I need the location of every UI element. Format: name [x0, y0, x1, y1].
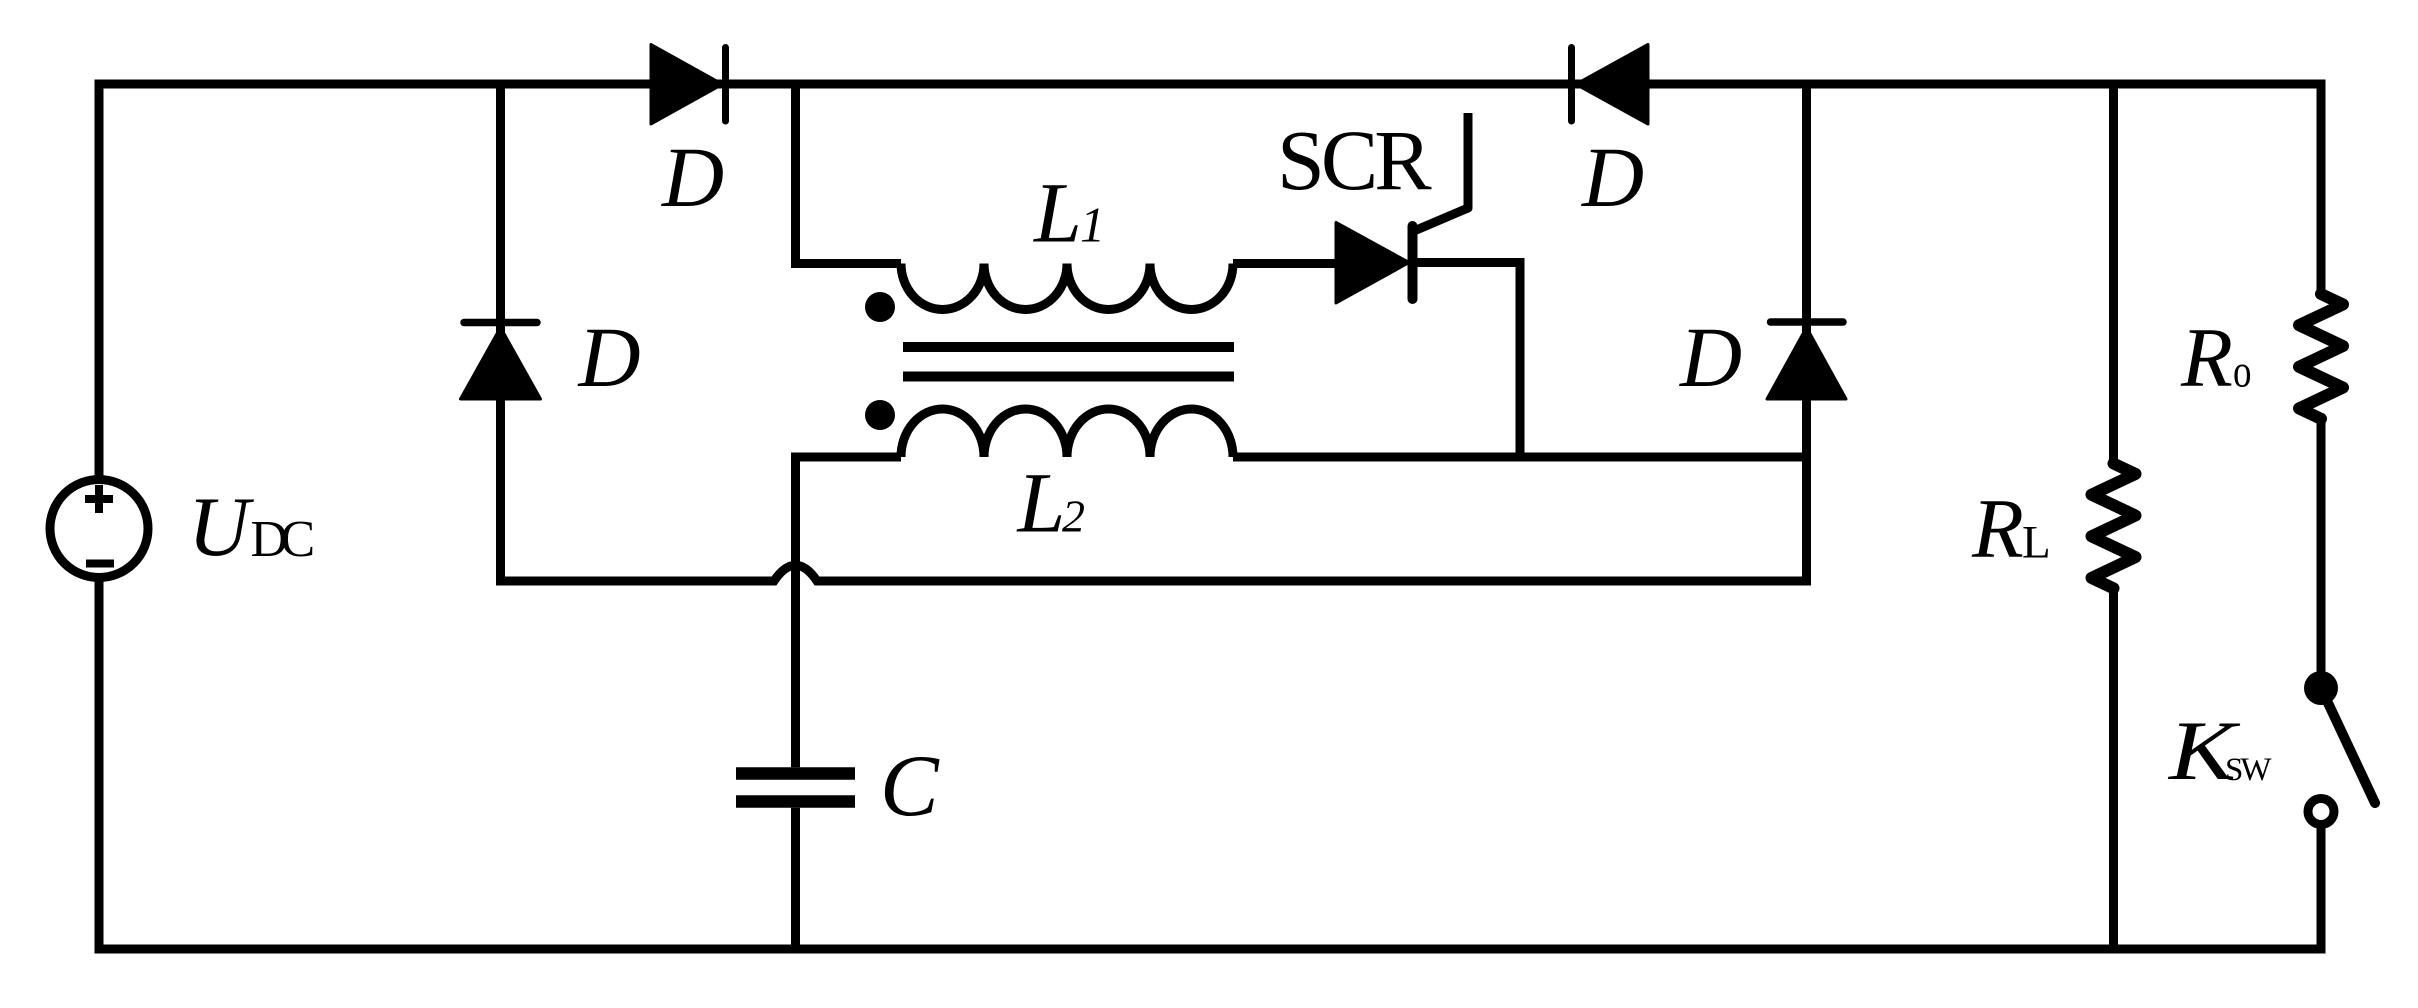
- wire: top rail: [95, 80, 2326, 89]
- svg-text:D: D: [661, 129, 724, 225]
- wire: lower link with hop over capacitor riser: [496, 565, 1811, 581]
- diode D (top-left) bar: [722, 48, 729, 122]
- svg-text:R: R: [2180, 311, 2233, 405]
- thyristor SCR gate: [1414, 113, 1468, 231]
- wire: L1 riser from top rail: [796, 84, 902, 264]
- switch Ksw pivot dot: [2304, 671, 2338, 705]
- switch Ksw open terminal: [2308, 799, 2334, 825]
- inductor L2: [901, 409, 1233, 457]
- svg-text:U: U: [188, 480, 254, 574]
- capacitor C plates: [736, 774, 855, 802]
- wire: SCR cathode to L2 output: [1412, 263, 1520, 462]
- label UDC: [188, 480, 313, 574]
- switch Ksw blade: [2321, 688, 2375, 803]
- svg-text:DC: DC: [251, 511, 313, 568]
- resistor Ro: [2299, 294, 2343, 419]
- wire: capacitor riser upper: [791, 453, 800, 768]
- wire: RL branch upper: [2109, 84, 2118, 464]
- diode D (left) bar: [464, 319, 537, 327]
- wire: switch to bottom rail: [2317, 826, 2326, 954]
- diode D (left) triangle: [461, 328, 541, 400]
- thyristor SCR bar: [1408, 226, 1418, 299]
- wire: L1 to SCR anode: [1233, 259, 1340, 268]
- wire: RL branch lower: [2109, 588, 2118, 953]
- label L1: [1032, 165, 1105, 261]
- wire: L2 left lead: [796, 453, 902, 462]
- svg-text:L: L: [1016, 455, 1066, 551]
- diode D (right) triangle: [1767, 328, 1846, 400]
- svg-text:L: L: [1032, 165, 1082, 261]
- resistor RL: [2092, 464, 2136, 589]
- thyristor SCR triangle: [1336, 223, 1409, 304]
- wire: capacitor riser lower: [791, 808, 800, 954]
- svg-text:L: L: [2022, 517, 2051, 569]
- inductor L1: [901, 264, 1233, 310]
- wire: Ro branch upper: [2317, 84, 2326, 294]
- wire: left diode branch: [496, 84, 505, 581]
- svg-text:D: D: [1581, 129, 1644, 225]
- dc source minus: [86, 560, 114, 568]
- dc source plus: [85, 485, 113, 513]
- label Ksw: [2167, 704, 2273, 798]
- svg-text:D: D: [1679, 309, 1742, 405]
- wire: left source riser (top): [95, 84, 104, 480]
- diode D (top-right) triangle: [1576, 45, 1648, 125]
- transformer core: [903, 347, 1234, 377]
- svg-text:o: o: [2233, 346, 2252, 398]
- wire: bottom rail: [95, 945, 2326, 954]
- svg-text:R: R: [1971, 482, 2024, 576]
- svg-text:1: 1: [1080, 197, 1105, 253]
- label L2: [1016, 455, 1086, 551]
- polarity dot L2: [865, 400, 895, 430]
- label Ro: [2180, 311, 2252, 405]
- svg-text:C: C: [880, 738, 940, 835]
- diode D (top-left) triangle: [651, 45, 723, 125]
- dc source U circle: [50, 480, 148, 578]
- wire: L2 right lead: [1233, 453, 1811, 462]
- wire: right diode branch: [1802, 84, 1811, 581]
- wire: left branch lower: [95, 577, 104, 954]
- diode D (top-right) bar: [1568, 48, 1575, 122]
- wire: Ro to switch: [2317, 419, 2326, 688]
- polarity dot L1: [865, 292, 895, 322]
- svg-text:SCR: SCR: [1277, 112, 1432, 208]
- svg-text:D: D: [578, 309, 641, 405]
- label RL: [1971, 482, 2051, 576]
- svg-text:SW: SW: [2225, 752, 2272, 788]
- diode D (right) bar: [1771, 318, 1844, 326]
- svg-text:2: 2: [1062, 491, 1085, 542]
